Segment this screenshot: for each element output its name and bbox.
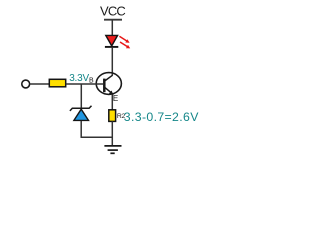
wire junction to zener xyxy=(80,84,82,108)
transistor Q1 base bar xyxy=(103,79,106,93)
wire R2 to ground xyxy=(111,121,113,145)
zener D2 triangle xyxy=(74,109,89,120)
power bar VCC xyxy=(104,19,122,21)
svg-text:E: E xyxy=(113,94,118,103)
wire R1 to base xyxy=(66,83,104,85)
ground symbol xyxy=(104,146,121,153)
transistor Q1 collector diagonal xyxy=(105,75,113,81)
resistor R2 body xyxy=(109,110,116,122)
wire VCC to LED anode xyxy=(111,20,113,36)
LED D1 triangle xyxy=(106,35,118,46)
svg-text:3.3VB: 3.3VB xyxy=(69,73,94,85)
wire terminal to R1 xyxy=(30,83,49,85)
LED light arrow 1 xyxy=(119,36,129,42)
LED light arrow 2 xyxy=(120,42,130,48)
LED D1 cathode bar xyxy=(105,46,118,48)
zener D2 cathode bar xyxy=(70,106,92,111)
wire LED cathode to collector xyxy=(111,48,113,76)
svg-text:3.3-0.7=2.6V: 3.3-0.7=2.6V xyxy=(124,110,199,124)
resistor R1 body xyxy=(49,79,65,87)
input terminal (open circle) xyxy=(22,80,30,88)
bottom rail wire xyxy=(81,136,113,138)
svg-text:VCC: VCC xyxy=(100,3,125,18)
transistor Q1 circle xyxy=(96,73,121,95)
transistor Q1 emitter diagonal with arrow xyxy=(105,87,114,95)
wire zener to bottom rail xyxy=(80,121,82,137)
wire emitter to R2 xyxy=(111,94,113,110)
